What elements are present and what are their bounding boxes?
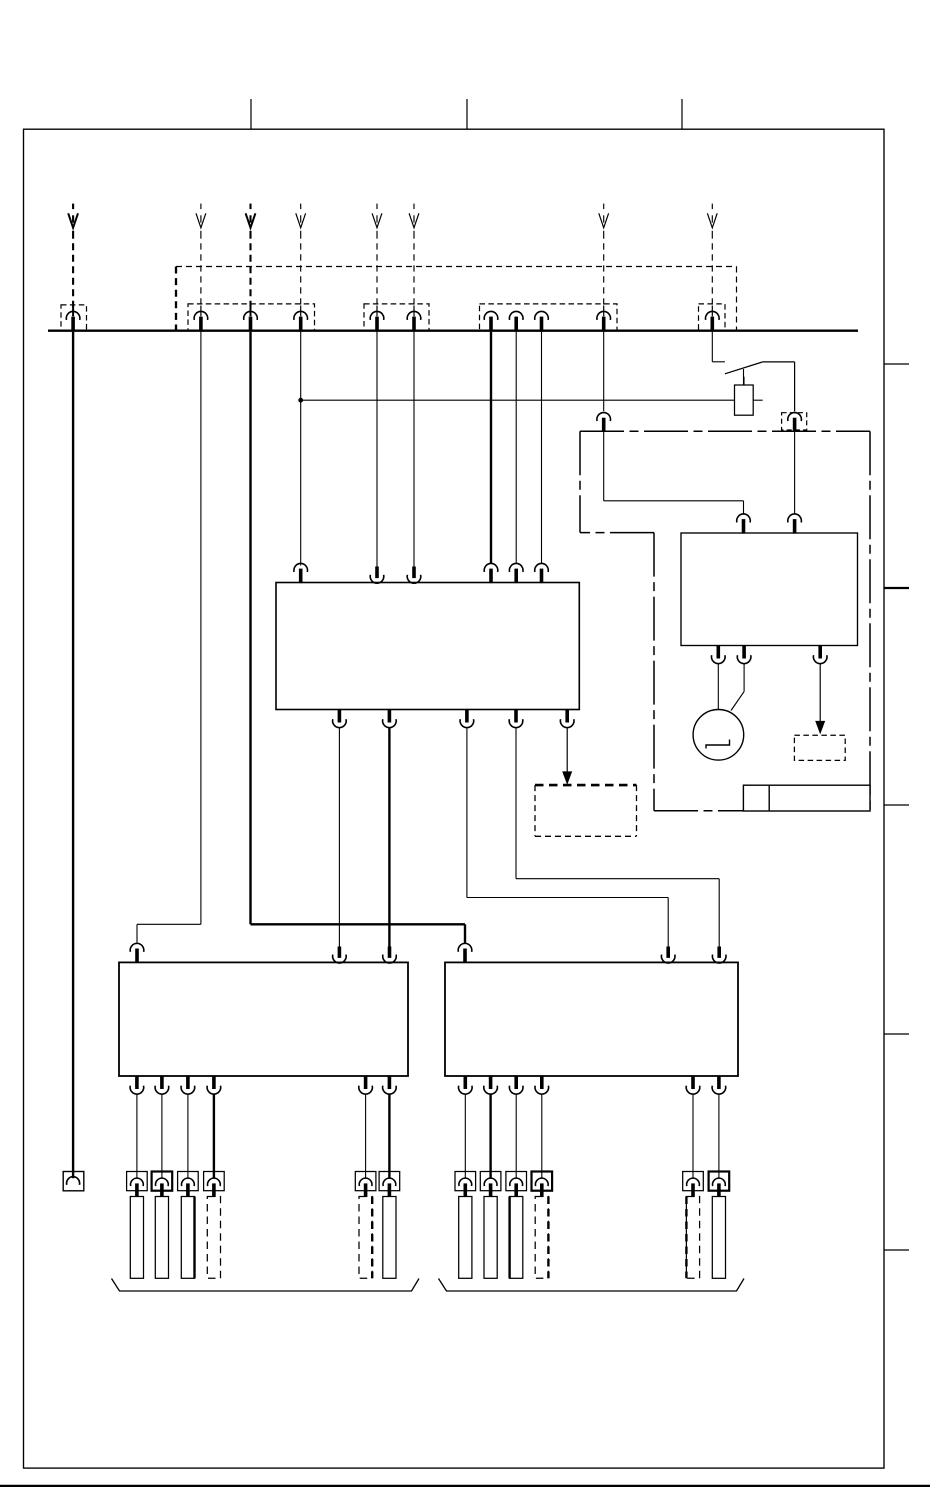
control unit boundary (chain) notch edge	[580, 532, 654, 534]
harness outline (dashed) left edge - bold	[175, 267, 177, 331]
right margin tick 4	[884, 1033, 910, 1035]
bus connector 6 at x=414.0	[407, 306, 421, 332]
wire: bus connector 8 down	[515, 332, 517, 564]
wire: switch to dash-dot unit connector	[763, 362, 795, 412]
right ECU bottom connector x=490.6	[484, 1076, 498, 1094]
left ECU pigtail 5: wire, socket box and element at x=365.6	[355, 1094, 376, 1279]
wire: bus connector 7 down (bold)	[490, 332, 492, 564]
wire: chain connector 794.6 to inner module	[794, 432, 796, 515]
bus connector 4 at x=300.7	[294, 306, 308, 332]
chain-box connector at x=603.7 (pin up + arc)	[597, 332, 611, 432]
right ECU top connector x=668.2 (pin down into socket)	[661, 947, 675, 964]
central block bottom connector x=567.2	[560, 710, 574, 728]
left ECU top connector x=339.4 (pin down into socket)	[333, 947, 347, 964]
right margin tick 3	[884, 804, 910, 806]
inner module bottom connector x=820.2	[813, 646, 827, 664]
connector housing (dashed) around bus connectors 5-6	[364, 304, 429, 330]
left ECU pigtail 2: wire, socket box and element at x=161.9	[152, 1094, 173, 1279]
right ECU box	[445, 962, 738, 1076]
dashed reference box (right)	[794, 735, 845, 760]
dashed reference box (center) sides and bottom	[535, 785, 637, 836]
right ECU bottom connector x=541.8	[535, 1076, 549, 1094]
left ECU pigtail 3: wire, socket box and element at x=187.9	[178, 1094, 199, 1279]
harness lead-in arrow 8 (dashed wire from above)	[707, 204, 717, 307]
relay coil top lead	[743, 377, 745, 385]
wire: junction to relay coil (horizontal)	[301, 399, 735, 401]
dashed housing around chain-box connector x=794.6	[782, 413, 807, 430]
bus connector 9 at x=541.5	[535, 311, 549, 331]
bus connector 8 at x=516.2	[509, 311, 523, 331]
right ECU pigtail 1: wire, socket box and element at x=465.3	[455, 1094, 476, 1279]
switch blade (open contact)	[725, 362, 763, 374]
inner module box	[681, 533, 858, 646]
page top tick mark 1	[250, 99, 252, 130]
harness lead-in arrow 6 (dashed wire from above)	[409, 204, 419, 307]
left ECU bottom connector x=187.9	[181, 1076, 195, 1094]
inner module top connector x=794.6	[788, 514, 802, 534]
right margin tick 5	[884, 1249, 910, 1251]
harness lead-in arrow 1 (dashed wire from above)	[68, 204, 78, 307]
harness lead-in arrow 7 (dashed wire from above)	[599, 204, 609, 307]
right ECU bottom connector x=718.9	[712, 1076, 726, 1094]
right ECU top connector x=465 (pin up + arc)	[458, 943, 472, 963]
right ECU top connector x=719.2 (pin down into socket)	[712, 947, 726, 964]
chain-box connector at x=794.6 (pin up + arc)	[788, 413, 802, 432]
wire: central block 466.9 to right ECU	[467, 727, 668, 946]
harness outline (dashed) top edge	[176, 266, 737, 268]
bus connector 7 at x=491.0	[484, 311, 498, 331]
wire: bus connector 2 to left ECU	[137, 332, 201, 943]
left ECU bottom connector x=161.9	[155, 1076, 169, 1094]
central block bottom connector x=516.0	[509, 710, 523, 728]
left ECU bottom connector x=213.9	[207, 1076, 221, 1094]
right ECU pigtail 6: wire, socket box and element at x=718.9	[709, 1094, 730, 1279]
harness outline (dashed) right edge	[736, 267, 738, 331]
central block top connector x=491 (pin up + arc)	[484, 563, 498, 583]
right ECU bottom connector x=516.2	[509, 1076, 523, 1094]
wire: central block 516.0 to right ECU	[516, 727, 719, 946]
left ECU pigtail 4: wire, socket box and element at x=213.9	[204, 1094, 225, 1279]
central block bottom connector x=389.4	[383, 710, 397, 728]
page top tick mark 2	[466, 99, 468, 130]
wire: bus connector 1 down to terminal (bold)	[72, 332, 74, 1178]
right ECU pigtail 2: wire, socket box and element at x=490.6	[480, 1094, 501, 1279]
dashed reference box (center) top edge - bold	[535, 784, 637, 787]
central block bottom connector x=466.9	[460, 710, 474, 728]
wire: central block 389.4 to left ECU (bold)	[388, 727, 390, 946]
harness lead-in arrow 4 (dashed wire from above)	[296, 204, 306, 307]
inner module bottom connector x=718.3	[711, 646, 725, 664]
inner module top connector x=743.5	[737, 514, 751, 534]
central junction block box	[276, 583, 579, 710]
page top tick mark 3	[681, 99, 683, 130]
central block top connector x=541.5 (pin up + arc)	[535, 563, 549, 583]
harness lead-in arrow 3 (dashed wire from above)	[246, 204, 256, 307]
bus connector 2 at x=200.9	[194, 306, 208, 332]
connector housing (dashed) around bus connector 11	[699, 304, 726, 330]
left ECU top connector x=389.5 (pin down into socket)	[383, 947, 397, 964]
relay coil right stub lead	[753, 399, 763, 401]
central block top connector x=516.2 (pin up + arc)	[509, 563, 523, 583]
left ECU bottom connector x=389.4	[383, 1076, 397, 1094]
left ECU pigtail 1: wire, socket box and element at x=136.9	[127, 1094, 148, 1279]
power bus line	[48, 330, 858, 332]
connector housing (dashed) around bus connectors 2-4	[188, 304, 315, 330]
harness lead-in arrow 5 (dashed wire from above)	[372, 204, 382, 307]
wire: bus connector 9 down	[541, 332, 543, 564]
wire: inner module to motor (left)	[717, 663, 719, 709]
inner module bottom connector x=744.1	[737, 646, 751, 664]
left ECU bottom connector x=136.9	[130, 1076, 144, 1094]
central block top connector x=300.7 (pin up + arc)	[294, 563, 308, 583]
wire: bus connector 11 down to switch	[712, 332, 725, 362]
left ECU top connector x=137 (pin up + arc)	[130, 943, 144, 963]
left ECU bottom connector x=365.6	[359, 1076, 373, 1094]
unit label box on chain bottom	[743, 785, 870, 811]
page bottom rule	[0, 1485, 930, 1487]
junction node dot	[298, 398, 303, 403]
harness lead-in arrow 2 (dashed wire from above)	[196, 204, 206, 307]
right ECU bottom connector x=693.0	[686, 1076, 700, 1094]
ground bracket under right group	[439, 1279, 745, 1292]
left ECU box	[119, 962, 408, 1076]
right margin tick 2 (bold)	[884, 587, 910, 589]
ground bracket under left group	[112, 1279, 420, 1292]
control unit boundary (chain) lower-left edge	[653, 533, 655, 811]
right ECU pigtail 4: wire, socket box and element at x=541.8	[532, 1094, 553, 1279]
arrow wire: inner module to dashed ref box	[815, 663, 825, 734]
wire: bus connector 4 down to control unit pin (thin)	[300, 332, 302, 566]
arrow wire: central block 567.2 to dashed ref box	[562, 727, 572, 785]
bus connector 3 at x=250.5	[244, 306, 258, 332]
control unit boundary (chain) top edge	[580, 430, 870, 432]
motor / actuator circle	[693, 710, 744, 761]
wire: bus connector 3 to right ECU (bold)	[251, 332, 466, 943]
control unit boundary (chain) right edge	[869, 431, 871, 811]
control unit boundary (chain) bottom edge	[654, 810, 870, 812]
right ECU bottom connector x=465.3	[459, 1076, 473, 1094]
bus connector 10 at x=603.7	[597, 306, 611, 332]
connector housing (dashed) around bus connector 1	[61, 305, 87, 330]
right ECU pigtail 3: wire, socket box and element at x=516.2	[506, 1094, 527, 1279]
central block bottom connector x=339.4	[333, 710, 347, 728]
switch actuator link to relay coil	[743, 369, 745, 385]
wire: central block 339.4 to left ECU	[338, 727, 340, 946]
right ECU pigtail 5: wire, socket box and element at x=693.0	[683, 1094, 704, 1279]
bus connector 5 at x=377.0	[370, 306, 384, 332]
bus connector 11 at x=712.3	[706, 306, 720, 332]
terminal socket box bottom-left	[63, 1172, 84, 1191]
relay coil / resistor body	[735, 385, 754, 415]
wire: inner module to motor (diagonal)	[731, 663, 744, 710]
wire: chain connector 603.7 to inner module	[604, 432, 744, 515]
central block top connector x=377.0 (pin down into socket)	[370, 332, 384, 583]
motor symbol glyph	[706, 740, 730, 749]
control unit boundary (chain) upper-left edge	[579, 431, 581, 532]
bus connector 1 at x=73.1	[66, 306, 80, 332]
connector housing (dashed) around bus connectors 7-10	[480, 304, 618, 330]
right margin tick 1	[884, 363, 910, 365]
central block top connector x=414.0 (pin down into socket)	[407, 332, 421, 583]
left ECU pigtail 6: wire, socket box and element at x=389.4	[379, 1094, 400, 1279]
